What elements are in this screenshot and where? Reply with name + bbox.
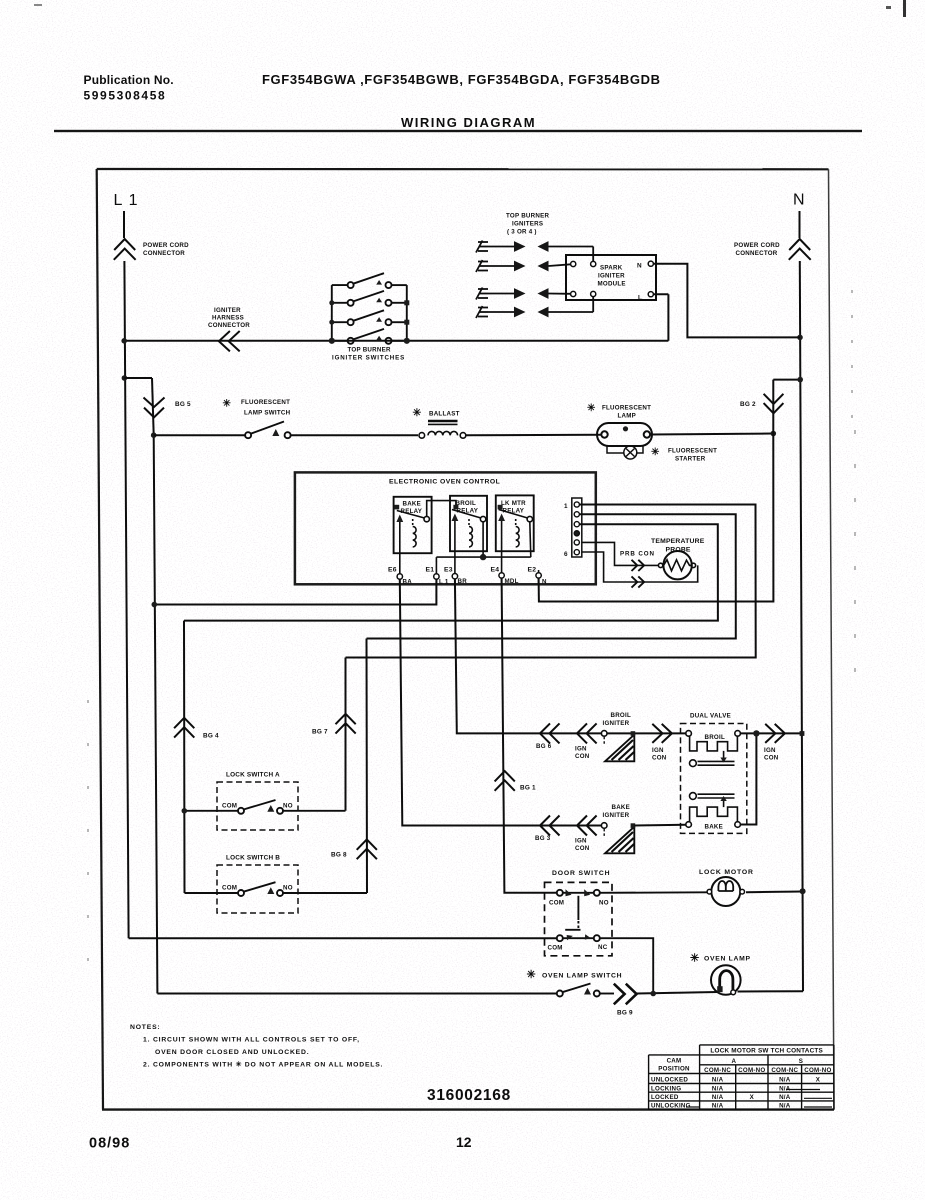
svg-text:BAKE: BAKE	[403, 501, 422, 508]
svg-text:OVEN LAMP: OVEN LAMP	[704, 956, 751, 963]
svg-text:12: 12	[456, 1134, 472, 1150]
svg-text:IGNITER: IGNITER	[598, 273, 625, 280]
svg-text:BAKE: BAKE	[705, 824, 724, 831]
svg-text:PRB CON: PRB CON	[620, 551, 655, 558]
svg-text:CON: CON	[652, 755, 667, 762]
svg-text:S: S	[799, 1058, 803, 1065]
svg-text:6: 6	[564, 551, 568, 558]
svg-text:✳: ✳	[587, 403, 596, 414]
svg-text:IGNITER: IGNITER	[214, 307, 241, 314]
svg-text:X: X	[750, 1094, 755, 1101]
svg-text:NOTES:: NOTES:	[130, 1024, 160, 1031]
svg-text:COM: COM	[548, 945, 563, 952]
svg-text:WIRING DIAGRAM: WIRING DIAGRAM	[401, 115, 536, 130]
svg-text:✳: ✳	[223, 399, 232, 410]
svg-text:FLUORESCENT: FLUORESCENT	[668, 448, 717, 455]
svg-text:E6: E6	[388, 567, 397, 574]
svg-text:E1: E1	[426, 567, 435, 574]
svg-text:CONNECTOR: CONNECTOR	[736, 250, 778, 257]
svg-text:N/A: N/A	[779, 1094, 791, 1101]
svg-text:BG 4: BG 4	[203, 733, 219, 740]
svg-text:N/A: N/A	[712, 1085, 724, 1092]
svg-text:COM-NO: COM-NO	[738, 1067, 765, 1074]
svg-text:( 3 OR 4 ): ( 3 OR 4 )	[507, 229, 537, 236]
svg-text:LOCKED: LOCKED	[651, 1094, 679, 1101]
svg-text:BG 8: BG 8	[331, 852, 347, 859]
svg-text:MDL: MDL	[505, 578, 519, 585]
svg-text:NO: NO	[283, 803, 293, 810]
svg-text:L: L	[638, 295, 642, 302]
svg-text:IGN: IGN	[575, 746, 587, 753]
svg-text:08/98: 08/98	[89, 1136, 130, 1152]
svg-text:MODULE: MODULE	[598, 281, 626, 288]
svg-text:IGN: IGN	[764, 747, 776, 754]
svg-text:BROIL: BROIL	[611, 712, 632, 719]
svg-text:UNLOCKING: UNLOCKING	[651, 1103, 691, 1110]
svg-text:COM: COM	[222, 885, 237, 892]
svg-text:N: N	[542, 579, 547, 586]
svg-text:IGN: IGN	[652, 747, 664, 754]
svg-text:LAMP SWITCH: LAMP SWITCH	[244, 410, 291, 417]
svg-text:COM-NC: COM-NC	[771, 1067, 798, 1074]
svg-text:BR: BR	[458, 578, 468, 585]
svg-text:L 1: L 1	[439, 579, 449, 586]
svg-text:BALLAST: BALLAST	[429, 411, 460, 418]
svg-text:LOCK SWITCH A: LOCK SWITCH A	[226, 772, 280, 779]
svg-text:IGNITER: IGNITER	[603, 720, 630, 727]
svg-text:DOOR SWITCH: DOOR SWITCH	[552, 870, 610, 877]
svg-text:SPARK: SPARK	[600, 265, 623, 272]
svg-text:NC: NC	[598, 944, 608, 951]
svg-text:2. COMPONENTS WITH ✳ DO NOT A: 2. COMPONENTS WITH ✳ DO NOT APPEAR ON AL…	[143, 1061, 383, 1069]
svg-text:FLUORESCENT: FLUORESCENT	[241, 399, 290, 406]
svg-text:✳: ✳	[413, 407, 422, 419]
svg-text:LOCK MOTOR SW TCH CONTACTS: LOCK MOTOR SW TCH CONTACTS	[710, 1048, 823, 1055]
svg-text:COM-NC: COM-NC	[704, 1067, 731, 1074]
svg-text:E3: E3	[444, 567, 453, 574]
svg-text:E2: E2	[528, 567, 537, 574]
svg-text:1. CIRCUIT SHOWN WITH ALL CON: 1. CIRCUIT SHOWN WITH ALL CONTROLS SET T…	[143, 1037, 360, 1044]
svg-text:LOCK MOTOR: LOCK MOTOR	[699, 869, 754, 876]
svg-text:BG 6: BG 6	[536, 743, 552, 750]
svg-text:BG 1: BG 1	[520, 785, 536, 792]
svg-text:LOCKING: LOCKING	[651, 1085, 681, 1092]
svg-text:IGNITERS: IGNITERS	[512, 221, 543, 228]
svg-text:ELECTRONIC OVEN CONTROL: ELECTRONIC OVEN CONTROL	[389, 479, 500, 486]
svg-text:CAM: CAM	[667, 1058, 682, 1065]
svg-text:BROIL: BROIL	[456, 500, 477, 507]
svg-text:NO: NO	[599, 900, 609, 907]
svg-text:316002168: 316002168	[427, 1087, 511, 1104]
svg-text:HARNESS: HARNESS	[212, 315, 244, 322]
svg-text:CONNECTOR: CONNECTOR	[208, 322, 250, 329]
svg-text:N: N	[637, 263, 642, 270]
svg-text:OVEN LAMP SWITCH: OVEN LAMP SWITCH	[542, 973, 622, 980]
svg-text:N/A: N/A	[779, 1077, 791, 1084]
svg-text:X: X	[816, 1077, 821, 1084]
svg-text:DUAL VALVE: DUAL VALVE	[690, 713, 731, 720]
svg-text:BG 2: BG 2	[740, 401, 756, 408]
svg-text:PROBE: PROBE	[666, 547, 691, 554]
svg-text:✳: ✳	[690, 953, 699, 965]
svg-text:LAMP: LAMP	[618, 413, 637, 420]
svg-text:BG 7: BG 7	[312, 729, 328, 736]
svg-text:BG 3: BG 3	[535, 835, 551, 842]
svg-text:COM: COM	[222, 803, 237, 810]
svg-text:LK MTR: LK MTR	[501, 500, 526, 507]
svg-text:✳: ✳	[651, 447, 660, 458]
svg-text:IGNITER SWITCHES: IGNITER SWITCHES	[332, 355, 405, 362]
svg-text:E4: E4	[491, 567, 500, 574]
svg-text:TEMPERATURE: TEMPERATURE	[651, 538, 705, 545]
svg-text:N/A: N/A	[779, 1103, 791, 1110]
svg-text:IGNITER: IGNITER	[603, 812, 630, 819]
svg-text:CON: CON	[764, 755, 779, 762]
svg-text:CON: CON	[575, 753, 590, 760]
svg-text:COM: COM	[549, 900, 564, 907]
svg-text:IGN: IGN	[575, 838, 587, 845]
svg-text:FLUORESCENT: FLUORESCENT	[602, 405, 651, 412]
svg-text:BG 9: BG 9	[617, 1010, 633, 1017]
svg-text:BROIL: BROIL	[705, 734, 726, 741]
svg-text:Publication No.: Publication No.	[84, 73, 174, 87]
svg-text:COM-NO: COM-NO	[804, 1067, 831, 1074]
svg-text:BAKE: BAKE	[612, 804, 631, 811]
svg-text:TOP BURNER: TOP BURNER	[506, 213, 549, 220]
svg-text:BG 5: BG 5	[175, 401, 191, 408]
svg-text:L 1: L 1	[114, 192, 139, 209]
svg-text:STARTER: STARTER	[675, 456, 706, 463]
svg-text:TOP BURNER: TOP BURNER	[348, 347, 391, 354]
svg-text:FGF354BGWA ,FGF354BGWB, FGF354: FGF354BGWA ,FGF354BGWB, FGF354BGDA, FGF3…	[262, 72, 661, 87]
svg-text:CONNECTOR: CONNECTOR	[143, 250, 185, 257]
svg-text:POWER CORD: POWER CORD	[734, 242, 780, 249]
svg-text:OVEN DOOR CLOSED AND UNLOCKED.: OVEN DOOR CLOSED AND UNLOCKED.	[155, 1049, 309, 1056]
svg-text:A: A	[731, 1058, 736, 1065]
svg-text:POSITION: POSITION	[658, 1066, 690, 1073]
svg-text:N/A: N/A	[712, 1103, 724, 1110]
svg-text:N/A: N/A	[712, 1094, 724, 1101]
svg-text:LOCK SWITCH B: LOCK SWITCH B	[226, 855, 280, 862]
svg-text:5995308458: 5995308458	[84, 89, 167, 103]
svg-text:✳: ✳	[527, 969, 536, 981]
svg-text:UNLOCKED: UNLOCKED	[651, 1077, 688, 1084]
svg-text:CON: CON	[575, 845, 590, 852]
svg-text:N: N	[793, 192, 806, 209]
svg-text:POWER CORD: POWER CORD	[143, 242, 189, 249]
svg-text:NO: NO	[283, 885, 293, 892]
svg-text:BA: BA	[403, 579, 413, 586]
svg-text:N/A: N/A	[779, 1085, 791, 1092]
svg-text:1: 1	[564, 503, 568, 510]
svg-text:N/A: N/A	[712, 1077, 724, 1084]
